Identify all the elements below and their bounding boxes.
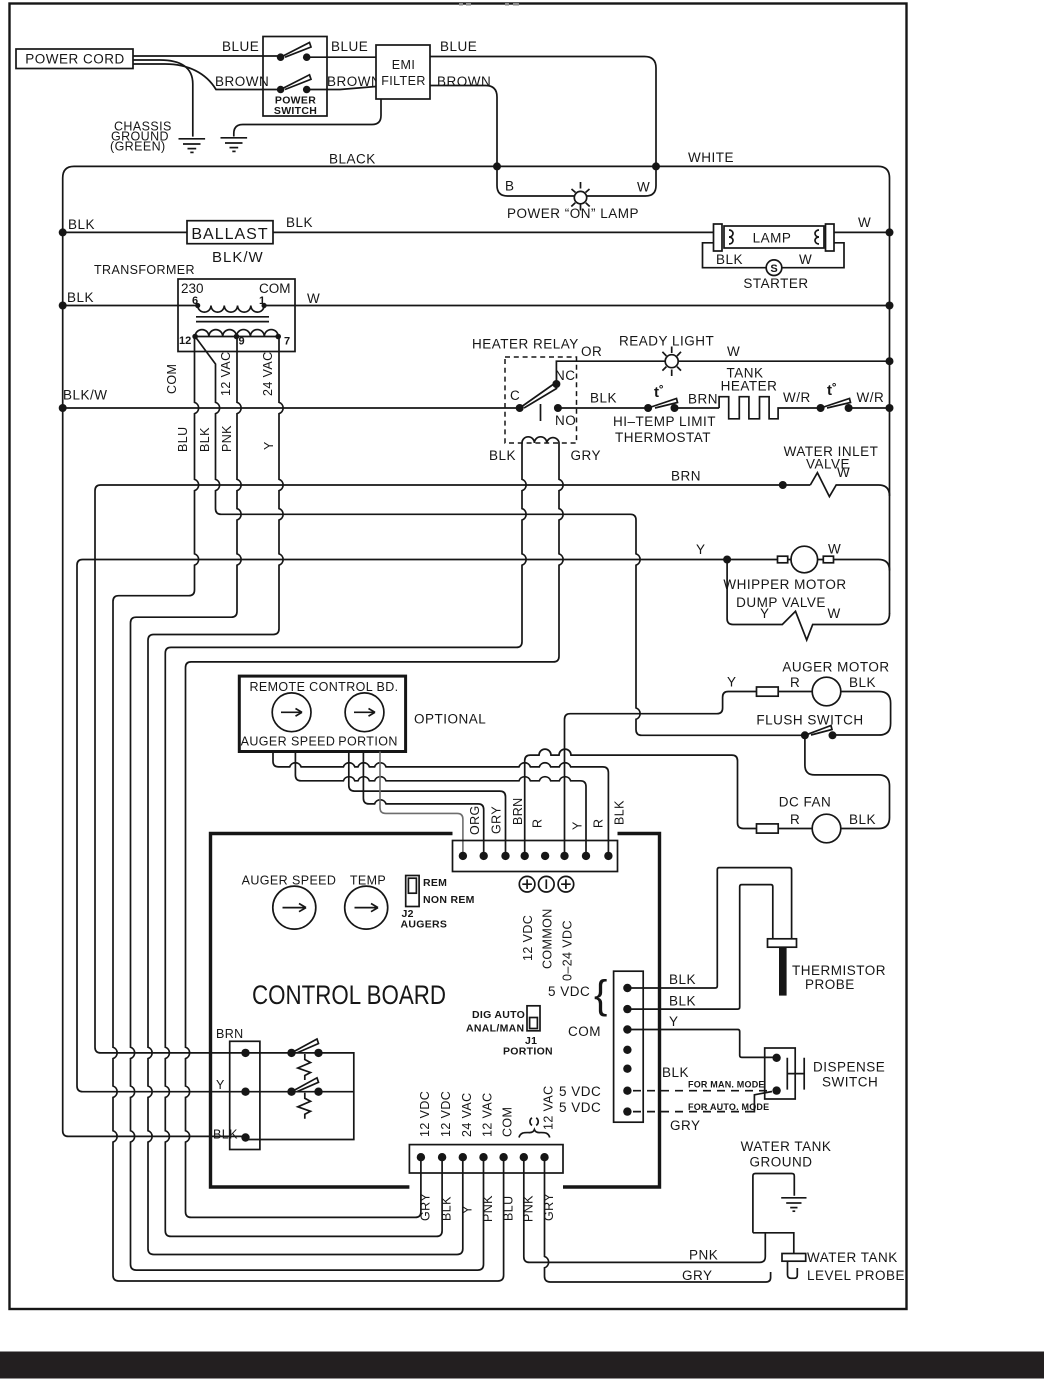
svg-text:Y: Y <box>696 542 706 557</box>
flush switch blade <box>805 726 832 736</box>
ready light symbol <box>662 347 681 377</box>
relay coil <box>522 437 559 443</box>
svg-text:PORTION: PORTION <box>338 735 398 749</box>
remote control board box <box>239 676 405 751</box>
svg-text:{: { <box>594 973 607 1017</box>
wire dashed for manual mode <box>633 1090 770 1092</box>
svg-text:Y: Y <box>760 606 770 621</box>
wire lamp to white rail <box>834 231 890 233</box>
svg-text:WHIPPER MOTOR: WHIPPER MOTOR <box>723 577 846 592</box>
svg-text:DIG AUTO: DIG AUTO <box>472 1009 525 1021</box>
svg-text:BLK: BLK <box>669 972 696 987</box>
svg-text:BRN: BRN <box>688 392 718 407</box>
wire relay coil GRY leg to board connector pin GRY <box>186 443 564 1217</box>
left vertical black feeder <box>63 178 246 1136</box>
svg-text:DISPENSE: DISPENSE <box>813 1060 885 1075</box>
pot2 blade <box>292 1078 319 1092</box>
thermostat blade <box>648 399 677 409</box>
svg-text:NON REM: NON REM <box>423 894 475 906</box>
svg-text:PROBE: PROBE <box>805 977 855 992</box>
right connector pins <box>623 984 631 992</box>
svg-text:S: S <box>770 263 777 275</box>
svg-text:GRY: GRY <box>571 448 602 463</box>
svg-text:GRY: GRY <box>682 1268 713 1283</box>
svg-text:W: W <box>307 291 320 306</box>
svg-text:GROUND: GROUND <box>750 1155 813 1170</box>
svg-text:BROWN: BROWN <box>327 74 381 89</box>
svg-text:BLK: BLK <box>68 217 95 232</box>
auger motor resistor block <box>757 687 779 696</box>
svg-text:READY LIGHT: READY LIGHT <box>619 334 714 349</box>
wire Y to dispense switch <box>627 1030 776 1058</box>
svg-text:12: 12 <box>179 335 191 347</box>
svg-text:BLK: BLK <box>716 252 743 267</box>
wire relay coil BLK leg to board connector pin BLK <box>165 443 526 1236</box>
wire water tank ground <box>753 1174 794 1233</box>
wire BLACK rail with left corner down <box>63 166 890 178</box>
svg-text:DUMP VALVE: DUMP VALVE <box>736 595 826 610</box>
svg-text:FOR MAN. MODE: FOR MAN. MODE <box>688 1080 765 1090</box>
dispense switch plunger <box>787 1058 804 1090</box>
svg-text:12 VAC: 12 VAC <box>219 351 233 396</box>
pot1 blade <box>292 1039 319 1053</box>
relay NC contact <box>552 380 560 388</box>
svg-text:EMI: EMI <box>392 58 415 72</box>
bottom connector pins <box>417 1153 425 1161</box>
svg-text:BLK: BLK <box>613 800 627 825</box>
svg-text:7: 7 <box>284 336 290 348</box>
svg-text:PORTION: PORTION <box>503 1046 553 1058</box>
wire transformer 9 PNK column to bottom connector PNK <box>131 337 484 1271</box>
svg-text:OPTIONAL: OPTIONAL <box>414 712 486 727</box>
svg-text:BLK: BLK <box>67 290 94 305</box>
water inlet valve element <box>810 473 889 497</box>
page header artifact marks <box>459 3 519 6</box>
lamp end caps <box>714 224 723 251</box>
svg-text:W: W <box>837 465 850 480</box>
svg-text:LAMP: LAMP <box>753 231 792 246</box>
starter circle <box>766 260 782 276</box>
svg-text:230: 230 <box>181 281 204 296</box>
water tank level probe body <box>782 1254 806 1262</box>
hi-temp limit thermostat contacts <box>644 404 652 412</box>
wire switch to EMI blue <box>307 56 376 58</box>
relay NO contact <box>554 404 562 412</box>
node junction lamp right <box>652 162 660 170</box>
svg-text:PNK: PNK <box>689 1248 718 1263</box>
svg-text:SWITCH: SWITCH <box>274 105 317 117</box>
svg-text:5 VDC: 5 VDC <box>559 1100 601 1115</box>
svg-text:BLK/W: BLK/W <box>212 249 264 266</box>
svg-text:TRANSFORMER: TRANSFORMER <box>94 263 195 277</box>
svg-text:BLU: BLU <box>502 1195 516 1221</box>
svg-text:AUGER SPEED: AUGER SPEED <box>241 735 336 749</box>
svg-text:NO: NO <box>555 413 576 428</box>
lamp filaments <box>729 230 819 244</box>
wire EMI blue output to white node <box>430 57 656 167</box>
bottom connector box <box>409 1145 563 1173</box>
remote auger speed knob <box>272 693 311 732</box>
chassis ground symbol <box>179 139 206 153</box>
wire white return rail down right side <box>889 178 891 614</box>
wire PNK to level probe <box>524 1157 766 1262</box>
whipper motor terminal blocks <box>778 556 788 563</box>
svg-text:B: B <box>505 179 515 194</box>
svg-text:BLACK: BLACK <box>329 152 376 167</box>
thermistor probe cap <box>768 939 797 947</box>
wire transformer primary rail <box>63 305 890 307</box>
wire ground bus to level probe <box>753 1233 794 1254</box>
node whipper junction <box>723 556 731 564</box>
svg-text:BLK: BLK <box>489 448 516 463</box>
top connector box <box>453 841 618 872</box>
transformer box <box>178 279 295 352</box>
svg-text:PNK: PNK <box>220 425 234 452</box>
svg-text:STARTER: STARTER <box>743 276 808 291</box>
node black rail to transformer rail <box>59 302 67 310</box>
wire power on lamp loop <box>497 166 656 196</box>
svg-text:R: R <box>531 819 545 828</box>
svg-text:t˚: t˚ <box>827 382 837 399</box>
svg-text:24 VAC: 24 VAC <box>261 351 275 396</box>
right connector box <box>614 971 644 1122</box>
wire pot1 row <box>246 1053 354 1140</box>
dispense switch contacts <box>772 1054 780 1062</box>
terminal minus circle COMMON <box>539 876 555 892</box>
temp knob <box>345 886 388 929</box>
wire Y rail to whipper motor <box>77 560 890 1092</box>
svg-text:BLK: BLK <box>669 994 696 1009</box>
wire flush switch to DC fan loop <box>805 735 890 828</box>
terminal plus circle 12VDC <box>519 876 535 892</box>
svg-text:GRY: GRY <box>670 1118 701 1133</box>
svg-text:COM: COM <box>165 364 179 394</box>
svg-text:W: W <box>858 215 871 230</box>
wire remote v5 ORG to top connector pin1 <box>380 752 463 857</box>
control board outline <box>211 834 660 1188</box>
wire switch to EMI brown <box>307 87 376 90</box>
svg-text:BLK: BLK <box>440 1196 454 1221</box>
DC fan resistor block <box>757 824 779 833</box>
svg-text:COM: COM <box>568 1024 601 1039</box>
terminal plus circle 0-24VDC <box>558 876 574 892</box>
svg-text:LEVEL PROBE: LEVEL PROBE <box>807 1268 905 1283</box>
svg-text:Y: Y <box>216 1078 225 1092</box>
svg-text:Y: Y <box>727 675 737 690</box>
svg-text:WHITE: WHITE <box>688 150 734 165</box>
svg-text:AUGER MOTOR: AUGER MOTOR <box>782 660 889 675</box>
wire remote v3 to top connector BRN pin3 <box>349 752 506 857</box>
svg-text:COM: COM <box>259 281 291 296</box>
svg-text:Y: Y <box>571 821 585 830</box>
node white rail W/R <box>886 404 894 412</box>
node water valve terminal <box>779 481 787 489</box>
svg-text:HEATER RELAY: HEATER RELAY <box>472 337 579 352</box>
wire remote v2 to top connector R pin7 <box>295 752 586 857</box>
svg-text:BLUE: BLUE <box>440 39 477 54</box>
svg-text:W/R: W/R <box>783 390 811 405</box>
tank thermostat blade <box>821 399 851 409</box>
node junction lamp left <box>493 162 501 170</box>
svg-text:BALLAST: BALLAST <box>191 226 268 243</box>
svg-text:BLUE: BLUE <box>222 39 259 54</box>
svg-text:FOR AUTO. MODE: FOR AUTO. MODE <box>688 1102 769 1112</box>
svg-text:BLK: BLK <box>213 1128 238 1142</box>
svg-text:PNK: PNK <box>481 1195 495 1222</box>
wire auto mode hook to dispense contact <box>749 1092 773 1112</box>
transformer core <box>196 317 269 322</box>
wire BLK/W rail to relay common <box>63 407 520 409</box>
svg-text:WATER TANK: WATER TANK <box>741 1139 832 1154</box>
earth ground symbol at EMI <box>221 138 248 152</box>
svg-text:BLK: BLK <box>198 427 212 452</box>
heater relay dashed box <box>505 357 577 443</box>
pot1 resistor zigzag <box>298 1054 311 1080</box>
wire remote v1 to top connector BLK pin8 <box>273 752 608 857</box>
svg-text:12 VAC: 12 VAC <box>481 1092 495 1137</box>
left connector box <box>230 1041 260 1149</box>
power on lamp symbol <box>571 182 589 211</box>
pot1 contacts <box>287 1049 295 1057</box>
svg-text:FLUSH SWITCH: FLUSH SWITCH <box>756 713 863 728</box>
svg-text:BLK: BLK <box>662 1065 689 1080</box>
wire BRN rail to water inlet valve <box>95 485 810 1053</box>
svg-text:W: W <box>828 542 841 557</box>
svg-text:BROWN: BROWN <box>215 74 269 89</box>
svg-text:FILTER: FILTER <box>381 74 426 88</box>
power switch box <box>263 37 327 117</box>
whipper motor circle <box>791 546 818 573</box>
power cord box <box>16 49 133 69</box>
node white rail at transformer rail <box>886 302 894 310</box>
wire dashed for auto mode <box>633 1111 749 1113</box>
wire BLK thermistor 1 <box>627 868 791 988</box>
wire transformer 12 BLK column to flush switch <box>195 337 805 736</box>
svg-text:THERMISTOR: THERMISTOR <box>792 963 886 978</box>
pot2 resistor zigzag <box>298 1093 311 1119</box>
transformer primary winding <box>198 306 264 313</box>
pot2 contacts <box>287 1088 295 1096</box>
DC fan circle <box>812 814 841 843</box>
svg-text:BLK: BLK <box>286 215 313 230</box>
svg-text:BLU: BLU <box>176 426 190 452</box>
svg-text:Y: Y <box>262 441 276 450</box>
svg-text:W: W <box>828 606 841 621</box>
auger motor circle <box>812 677 841 706</box>
wire EMI filter case ground <box>234 99 381 137</box>
wire power cord brown conductor <box>133 64 281 90</box>
node black rail to ballast rail <box>59 228 67 236</box>
svg-text:OR: OR <box>581 344 602 359</box>
wire BLK thermistor 2 <box>627 885 772 1010</box>
svg-text:AUGER SPEED: AUGER SPEED <box>242 874 337 888</box>
svg-text:W: W <box>727 344 740 359</box>
wire power cord green conductor to chassis ground <box>133 60 193 137</box>
water tank ground symbol <box>781 1198 806 1211</box>
svg-text:POWER “ON” LAMP: POWER “ON” LAMP <box>507 206 639 221</box>
svg-text:BLK: BLK <box>849 675 876 690</box>
svg-text:DC FAN: DC FAN <box>779 795 832 810</box>
svg-text:HI–TEMP LIMIT: HI–TEMP LIMIT <box>613 414 716 429</box>
top connector pins <box>459 852 467 860</box>
wire power cord blue conductor <box>133 55 280 57</box>
svg-text:BRN: BRN <box>671 469 701 484</box>
transformer secondary winding <box>195 330 278 337</box>
svg-text:BROWN: BROWN <box>437 74 491 89</box>
svg-text:R: R <box>790 812 800 827</box>
svg-text:W: W <box>637 180 650 195</box>
svg-text:12 VAC: 12 VAC <box>542 1085 556 1130</box>
power switch lower contact blade <box>281 75 311 90</box>
svg-text:COMMON: COMMON <box>541 908 555 969</box>
flush switch contacts <box>801 731 809 739</box>
svg-text:0–24 VDC: 0–24 VDC <box>561 920 575 981</box>
level probe electrode <box>788 1261 798 1278</box>
svg-text:5 VDC: 5 VDC <box>548 984 590 999</box>
thermistor probe stem <box>779 947 787 995</box>
wire thermostat to white rail <box>849 407 890 409</box>
svg-text:WATER TANK: WATER TANK <box>807 1250 898 1265</box>
svg-text:12 VDC: 12 VDC <box>418 1091 432 1137</box>
wire GRY to level probe <box>545 1157 771 1282</box>
wire NC to ready light rail <box>556 361 889 384</box>
svg-text:POWER CORD: POWER CORD <box>25 52 125 67</box>
svg-text:BRN: BRN <box>511 797 525 825</box>
J2 augers switch <box>406 876 419 907</box>
svg-text:SWITCH: SWITCH <box>822 1075 878 1090</box>
wire EMI brown output down to black rail <box>430 86 497 167</box>
ballast box <box>187 221 273 244</box>
tank heater element <box>719 397 821 419</box>
svg-text:W: W <box>799 252 812 267</box>
auger speed knob <box>273 886 316 929</box>
svg-text:(GREEN): (GREEN) <box>110 140 166 154</box>
svg-text:C: C <box>510 388 520 403</box>
svg-text:Y: Y <box>461 1205 475 1214</box>
wire remote v4 to top connector GRY pin2 <box>363 752 483 857</box>
svg-text:THERMOSTAT: THERMOSTAT <box>615 430 711 445</box>
svg-text:BLK: BLK <box>590 391 617 406</box>
node white rail at ready light <box>886 357 894 365</box>
svg-text:BLUE: BLUE <box>331 39 368 54</box>
svg-text:COM: COM <box>501 1107 515 1137</box>
svg-text:R: R <box>790 675 800 690</box>
wire starter loop <box>703 243 845 268</box>
wire transformer 7 Y column to bottom connector Y <box>148 337 463 1255</box>
svg-text:24 VAC: 24 VAC <box>460 1092 474 1137</box>
svg-text:12 VDC: 12 VDC <box>439 1091 453 1137</box>
svg-text:REMOTE CONTROL BD.: REMOTE CONTROL BD. <box>249 680 398 694</box>
remote portion knob <box>345 693 384 732</box>
svg-text:NC: NC <box>555 368 576 383</box>
power switch upper contact blade <box>281 43 311 58</box>
wire transformer COM BLU column to bottom connector BLU <box>113 337 504 1282</box>
svg-text:Y: Y <box>669 1014 679 1029</box>
svg-text:REM: REM <box>423 877 447 889</box>
brace 12VAC pins <box>530 1118 538 1126</box>
wire ballast rail <box>63 231 714 233</box>
relay actuator link <box>540 404 542 421</box>
svg-text:ORG: ORG <box>468 805 482 835</box>
svg-text:BLK: BLK <box>849 812 876 827</box>
EMI filter box <box>376 45 430 99</box>
bottom black page bar <box>0 1352 1044 1379</box>
svg-text:W/R: W/R <box>857 390 885 405</box>
node white rail at lamp <box>886 228 894 236</box>
wire dump valve loop <box>727 560 889 641</box>
svg-text:CONTROL BOARD: CONTROL BOARD <box>252 980 446 1010</box>
fluorescent lamp tube <box>724 226 824 248</box>
wire DC fan to control board R pin <box>525 749 813 856</box>
wire relay NO to hi-temp thermostat <box>558 407 648 409</box>
svg-text:12 VDC: 12 VDC <box>521 915 535 961</box>
J1 portion switch <box>527 1006 540 1031</box>
relay blade C to NC <box>520 384 557 409</box>
svg-text:t˚: t˚ <box>654 384 664 401</box>
tank thermostat contacts <box>817 404 825 412</box>
svg-text:5 VDC: 5 VDC <box>559 1084 601 1099</box>
svg-text:AUGERS: AUGERS <box>401 919 448 931</box>
left connector pins <box>241 1049 249 1057</box>
wire auger motor line from Y pin <box>565 692 891 857</box>
dispense switch box <box>765 1048 796 1099</box>
wire thermostat to tank heater <box>675 407 720 409</box>
svg-text:ANAL/MAN: ANAL/MAN <box>466 1023 524 1035</box>
svg-text:BLK/W: BLK/W <box>63 388 108 403</box>
svg-text:BRN: BRN <box>216 1027 244 1041</box>
svg-text:HEATER: HEATER <box>721 379 778 394</box>
svg-text:GRY: GRY <box>419 1193 433 1221</box>
svg-text:R: R <box>592 819 606 828</box>
node black rail to relay rail <box>59 404 67 412</box>
svg-text:GRY: GRY <box>490 806 504 834</box>
relay common contact C <box>516 404 524 412</box>
